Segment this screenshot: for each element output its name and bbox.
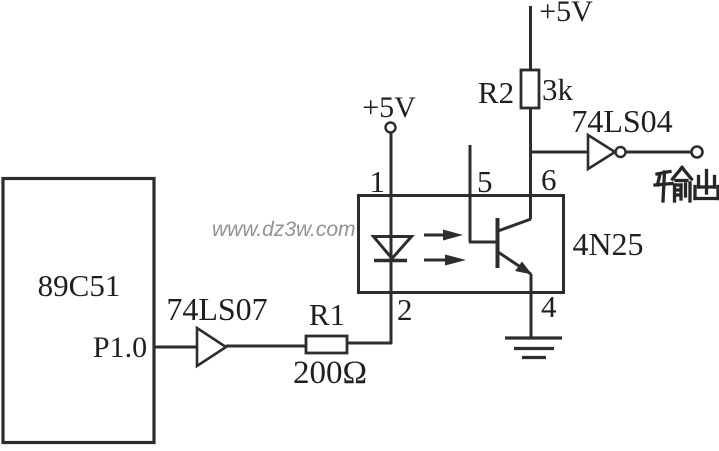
svg-text:1: 1 <box>370 164 386 199</box>
svg-text:2: 2 <box>397 292 413 327</box>
svg-text:R2: R2 <box>478 75 514 110</box>
svg-text:R1: R1 <box>309 297 345 332</box>
svg-text:6: 6 <box>541 162 557 197</box>
svg-text:74LS07: 74LS07 <box>166 291 267 327</box>
svg-text:74LS04: 74LS04 <box>571 103 672 139</box>
svg-text:+5V: +5V <box>362 91 416 124</box>
svg-text:5: 5 <box>477 164 493 199</box>
svg-text:+5V: +5V <box>539 0 593 28</box>
svg-text:P1.0: P1.0 <box>93 331 147 364</box>
svg-text:www.dz3w.com: www.dz3w.com <box>212 218 356 241</box>
svg-text:4N25: 4N25 <box>572 226 643 262</box>
svg-text:4: 4 <box>541 289 557 324</box>
svg-text:200Ω: 200Ω <box>293 355 367 391</box>
svg-text:3k: 3k <box>542 72 574 107</box>
svg-text:89C51: 89C51 <box>38 268 121 303</box>
